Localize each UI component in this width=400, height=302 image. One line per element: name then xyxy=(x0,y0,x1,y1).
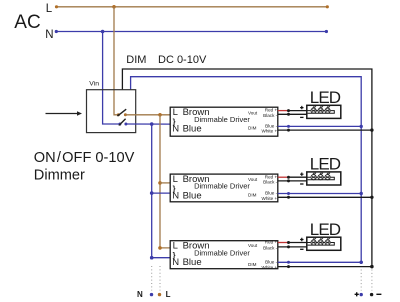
wire blue DIM- DRV2 to blue bus xyxy=(278,193,361,195)
dotted continuation left L bus xyxy=(159,266,161,291)
svg-text:Vout: Vout xyxy=(248,243,258,248)
svg-text:Vin: Vin xyxy=(89,80,99,87)
junction dot on black wire row 1 xyxy=(287,113,290,116)
svg-text:Blue -: Blue - xyxy=(265,123,277,128)
LED symbol D11 xyxy=(311,106,316,113)
corner dot black bus bottom xyxy=(370,265,373,268)
corner dot brown bus at driver 3 xyxy=(158,246,162,250)
wire red Vout+ DRV1 to LED1 xyxy=(278,110,289,112)
junction dot black bus row 3 xyxy=(370,265,373,268)
svg-text:Vout: Vout xyxy=(248,177,258,182)
wire black DIM+ DRV1 to black bus xyxy=(278,129,372,131)
junction brown bus / driver 2 tap xyxy=(158,181,162,185)
LED3 strip box xyxy=(307,237,341,250)
wire black DIM+ DRV3 to black bus xyxy=(278,266,372,268)
wire brown switched L to driver 1 xyxy=(125,114,170,116)
dotted continuation left N bus xyxy=(151,266,153,291)
LED symbol D33 xyxy=(325,238,330,245)
junction blue bus / driver 2 tap xyxy=(150,191,154,195)
svg-text:White +: White + xyxy=(261,129,277,134)
LED symbol D32 xyxy=(318,238,323,245)
svg-text:LED: LED xyxy=(310,88,341,107)
svg-text:Blue: Blue xyxy=(183,257,202,268)
wire red Vout+ DRV3 to LED3 xyxy=(278,242,289,244)
svg-text:Blue: Blue xyxy=(183,190,202,201)
svg-text:White +: White + xyxy=(261,265,277,270)
junction dot on black DIM wire row 2 xyxy=(287,196,290,199)
LED1 internal series wiring xyxy=(307,111,335,114)
driver DRV3 box (Dimmable Driver) xyxy=(170,241,278,269)
dimmer box SW1 (ON/OFF 0-10V dimmer) xyxy=(87,90,136,133)
wire brown tap to driver 2 xyxy=(160,182,171,184)
svg-text:LED: LED xyxy=(310,155,341,174)
plus terminal label row 2 xyxy=(300,173,303,176)
minus terminal label row 3 xyxy=(300,248,303,250)
LED symbol D13 xyxy=(325,106,330,113)
svg-text:LED: LED xyxy=(310,220,341,239)
wire left N bus blue (down to drivers 2,3) xyxy=(152,124,171,258)
junction brown at left L bus xyxy=(158,113,162,117)
node dot + bottom xyxy=(360,293,363,296)
svg-text:AC: AC xyxy=(14,12,40,33)
switch contact dots, L pole xyxy=(117,113,127,116)
svg-text:N: N xyxy=(172,257,179,268)
wire red Vout+ DRV2 to LED2 xyxy=(278,176,289,178)
wire N (AC neutral, blue) xyxy=(55,30,328,33)
switch blade, L pole xyxy=(117,109,126,116)
dotted continuation right blue bus xyxy=(360,270,362,291)
junction blue at left N bus xyxy=(150,122,154,126)
corner dot blue bus at driver 3 xyxy=(150,256,154,260)
svg-text:ON / OFF 0-10V: ON / OFF 0-10V xyxy=(34,150,135,166)
wire blue tap to driver 2 xyxy=(152,192,171,194)
junction dot black bus row 2 xyxy=(370,196,373,199)
junction dot on red wire row 1 xyxy=(287,109,290,112)
junction L / brown drop to dimmer xyxy=(112,5,116,9)
svg-text:Blue -: Blue - xyxy=(265,191,277,196)
svg-text:DC 0-10V: DC 0-10V xyxy=(158,54,207,66)
wire left L bus brown (down to drivers 2,3) xyxy=(160,115,171,248)
switch contact dots, N pole xyxy=(118,123,127,126)
junction N / blue drop to dimmer xyxy=(101,30,105,34)
wire black DIM+ DRV2 to black bus xyxy=(278,196,372,198)
svg-text:DIM: DIM xyxy=(126,54,146,66)
plus terminal label row 3 xyxy=(300,238,303,241)
svg-text:Black -: Black - xyxy=(263,180,278,185)
label + bottom xyxy=(355,292,359,296)
svg-text:Red +: Red + xyxy=(265,240,278,245)
svg-text:N: N xyxy=(45,29,53,41)
wire DIM bus black (dimmer output to right-side bus) xyxy=(122,69,372,267)
junction dot blue bus row 1 xyxy=(360,125,363,128)
minus terminal label row 1 xyxy=(300,116,303,118)
LED symbol D31 xyxy=(311,238,316,245)
junction dot on blue DIM wire row 1 xyxy=(287,125,290,128)
svg-text:L: L xyxy=(46,3,53,15)
node dot N bottom xyxy=(150,293,153,296)
wire black Vout- DRV1 to LED1 xyxy=(278,113,307,115)
svg-text:Vout: Vout xyxy=(248,111,258,116)
driver DRV2 box (Dimmable Driver) xyxy=(170,174,278,202)
LED symbol D22 xyxy=(318,173,323,180)
LED symbol D23 xyxy=(325,173,330,180)
junction dot blue bus row 3 xyxy=(360,261,363,264)
svg-text:DIM: DIM xyxy=(248,126,257,131)
LED1 strip box xyxy=(307,105,341,118)
junction dot on red wire row 2 xyxy=(287,176,290,179)
switch blade, N pole xyxy=(119,119,126,126)
svg-text:N: N xyxy=(137,290,143,299)
junction dot on red wire row 3 xyxy=(287,241,290,244)
minus terminal label row 2 xyxy=(300,183,303,185)
svg-text:Black -: Black - xyxy=(263,113,278,118)
svg-text:N: N xyxy=(172,190,179,201)
LED2 internal series wiring xyxy=(307,177,335,180)
LED symbol D12 xyxy=(318,106,323,113)
wire black Vout- DRV2 to LED2 xyxy=(278,180,307,182)
junction dot on blue DIM wire row 3 xyxy=(287,261,290,264)
wire blue DIM- DRV3 to blue bus xyxy=(278,261,361,263)
wire brown L drop into dimmer switch xyxy=(114,7,118,115)
svg-text:White +: White + xyxy=(261,196,277,201)
LED symbol D21 xyxy=(311,173,316,180)
plus terminal label row 1 xyxy=(300,106,303,109)
corner dot blue bus bottom xyxy=(360,261,363,264)
junction dot on black DIM wire row 3 xyxy=(287,265,290,268)
driver DRV1 box (Dimmable Driver) xyxy=(170,107,278,136)
node dot L bottom xyxy=(158,293,161,296)
junction dot on black wire row 2 xyxy=(287,179,290,182)
svg-text:DIM: DIM xyxy=(248,193,257,198)
junction dot on blue DIM wire row 2 xyxy=(287,192,290,195)
wire L (AC live, brown) xyxy=(55,5,329,8)
node dot - bottom xyxy=(370,293,373,296)
wire blue DIM- DRV1 to blue bus xyxy=(278,125,361,127)
LED2 strip box xyxy=(307,172,341,185)
wire blue N drop into dimmer switch xyxy=(103,32,120,125)
svg-text:Black -: Black - xyxy=(263,246,278,251)
wire blue switched N to driver 1 xyxy=(126,123,171,125)
LED3 internal series wiring xyxy=(307,243,335,246)
svg-text:Dimmer: Dimmer xyxy=(34,167,85,183)
wire DIM bus blue (dimmer output to right-side bus) xyxy=(131,77,362,263)
svg-text:L: L xyxy=(166,290,171,299)
arrow into dimmer xyxy=(46,111,83,115)
svg-text:Dimmable Driver: Dimmable Driver xyxy=(194,115,250,124)
svg-text:DIM: DIM xyxy=(248,262,257,267)
junction dot on black DIM wire row 1 xyxy=(287,129,290,132)
dotted continuation right black bus xyxy=(371,270,373,291)
junction dot on black wire row 3 xyxy=(287,245,290,248)
junction dot blue bus row 2 xyxy=(360,192,363,195)
svg-text:N: N xyxy=(172,124,179,135)
wire black Vout- DRV3 to LED3 xyxy=(278,246,307,248)
junction dot black bus row 1 xyxy=(370,128,373,131)
svg-text:Blue: Blue xyxy=(183,124,202,135)
svg-text:Blue -: Blue - xyxy=(265,259,277,264)
svg-text:Dimmable Driver: Dimmable Driver xyxy=(194,182,250,191)
svg-text:Dimmable Driver: Dimmable Driver xyxy=(194,248,250,257)
label - bottom xyxy=(376,293,381,295)
